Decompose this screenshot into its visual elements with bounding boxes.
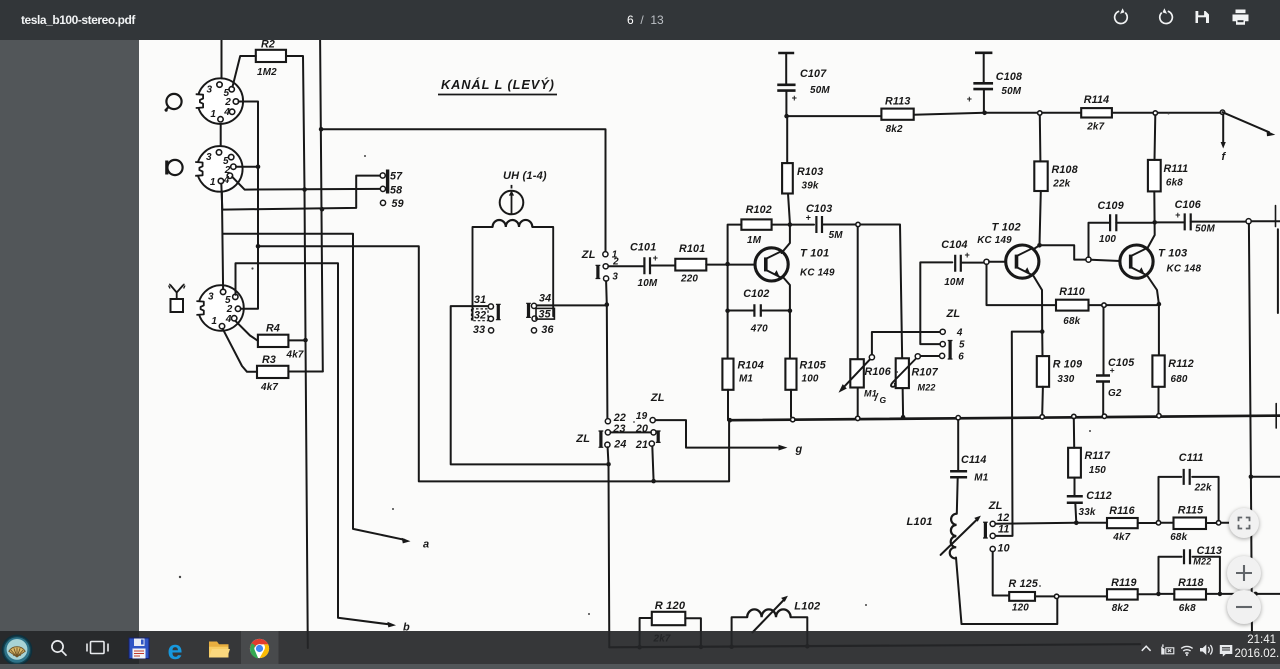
connector bar 31/32 xyxy=(497,304,500,319)
svg-text:R102: R102 xyxy=(746,204,772,216)
svg-text:R 125: R 125 xyxy=(1009,578,1039,590)
wire R104 bottom to ground bus xyxy=(727,390,729,420)
wire R102 left to base xyxy=(728,225,742,264)
svg-text:4k7: 4k7 xyxy=(260,382,278,393)
transformer UH winding + box xyxy=(473,227,493,320)
capacitor C102 xyxy=(743,288,769,335)
terminal 57 xyxy=(380,171,403,183)
svg-text:R105: R105 xyxy=(800,360,827,372)
wire R103 top to C107 node xyxy=(786,116,788,163)
svg-text:KANÁL L (LEVÝ): KANÁL L (LEVÝ) xyxy=(441,77,555,92)
wire C105 top xyxy=(1103,308,1105,376)
svg-text:59: 59 xyxy=(392,198,404,210)
svg-text:50M: 50M xyxy=(1001,86,1021,97)
resistor R114 xyxy=(1081,94,1112,133)
wire ZL5 to C104 xyxy=(920,262,952,344)
svg-text:33: 33 xyxy=(473,324,485,336)
connector ZL pins 4-6 xyxy=(940,308,966,363)
svg-text:C111: C111 xyxy=(1179,452,1204,464)
svg-text:M22: M22 xyxy=(918,383,936,393)
wire C109 right to R111 node xyxy=(1116,222,1152,224)
wire C109 left to base node xyxy=(1089,223,1111,257)
floppy app xyxy=(129,638,149,659)
resistor R2 xyxy=(256,39,286,79)
svg-text:4k7: 4k7 xyxy=(286,350,304,361)
svg-text:1M2: 1M2 xyxy=(257,67,277,78)
svg-text:+: + xyxy=(1110,365,1115,375)
capacitor C112 xyxy=(1067,490,1112,518)
resistor R118 xyxy=(1174,577,1206,614)
svg-text:C113: C113 xyxy=(1197,545,1223,557)
svg-text:M1: M1 xyxy=(739,374,753,385)
resistor R113 xyxy=(881,96,913,136)
svg-text:31: 31 xyxy=(474,294,486,306)
chrome xyxy=(249,639,269,659)
svg-text:R115: R115 xyxy=(1178,505,1204,517)
resistor R105 xyxy=(785,359,826,390)
node f junction + arrows xyxy=(1153,111,1157,115)
svg-text:C114: C114 xyxy=(961,454,987,466)
resistor R110 xyxy=(1056,286,1089,327)
svg-text:5: 5 xyxy=(959,340,965,351)
svg-text:g: g xyxy=(795,444,803,456)
wire T102-T103 coupling xyxy=(1040,245,1086,259)
svg-text:ZL: ZL xyxy=(581,249,596,261)
wire T101 collector xyxy=(782,225,790,253)
antenna icon xyxy=(169,284,185,312)
connector J2 (DIN input 2) xyxy=(195,146,243,192)
wire conn3 pin5 to arrow b xyxy=(236,263,390,624)
svg-text:10M: 10M xyxy=(638,278,658,289)
resistor R112 xyxy=(1152,355,1193,386)
title KANAL L (LEVY) xyxy=(438,77,557,95)
wire conn2 pin4 to terminal 58 xyxy=(232,177,380,190)
svg-text:6k8: 6k8 xyxy=(1179,603,1196,614)
svg-text:12: 12 xyxy=(997,512,1009,524)
wire L101 bottom to R125 node xyxy=(956,558,1057,625)
svg-text:4: 4 xyxy=(225,314,232,325)
svg-text:100: 100 xyxy=(802,374,819,385)
svg-text:50M: 50M xyxy=(1195,224,1215,235)
terminal 34 xyxy=(531,293,551,309)
svg-text:68k: 68k xyxy=(1170,532,1187,543)
wire C105 bottom to bus xyxy=(1102,382,1104,417)
wire R117 top to bus xyxy=(1073,419,1075,448)
svg-text:G: G xyxy=(880,395,887,405)
svg-text:R103: R103 xyxy=(797,166,823,178)
wire R107 wiper to ZL6 xyxy=(920,355,939,357)
svg-text:ZL: ZL xyxy=(946,308,961,320)
svg-text:R101: R101 xyxy=(679,243,705,255)
tray chevron xyxy=(1142,646,1151,651)
wire R103 bottom to collector node xyxy=(788,194,790,224)
svg-text:C112: C112 xyxy=(1086,490,1112,502)
resistor R4 xyxy=(258,323,304,361)
svg-text:R104: R104 xyxy=(738,360,764,372)
wire pin2 bus (conn1-conn2-conn3) xyxy=(239,102,258,309)
capacitor C107 (electrolytic) xyxy=(777,53,830,116)
resistor R102 xyxy=(741,204,772,246)
svg-text:+: + xyxy=(653,253,659,263)
resistor R115 xyxy=(1170,505,1206,544)
wire R111 bottom to collector node xyxy=(1147,191,1155,249)
capacitor C103 xyxy=(806,203,844,241)
wire conn3 pin4 to R4 xyxy=(235,321,258,341)
svg-text:22k: 22k xyxy=(1194,483,1212,494)
wire R109 bottom to bus xyxy=(1041,387,1044,415)
wire R116-R115 xyxy=(1138,522,1156,524)
motor symbol UH xyxy=(500,185,524,214)
wire C104 to T102 base xyxy=(961,262,984,264)
svg-text:19: 19 xyxy=(636,411,648,422)
resistor R103 xyxy=(782,163,823,193)
capacitor C101 xyxy=(630,242,659,290)
wire R3 right to x322 vertical xyxy=(288,371,322,373)
wifi xyxy=(1181,646,1192,656)
wire pin2-bus to ZL21 net (via x419) xyxy=(258,246,729,481)
wire T102 collector xyxy=(1033,245,1040,249)
resistor R117 xyxy=(1068,448,1111,478)
svg-text:R111: R111 xyxy=(1164,163,1189,175)
speaker xyxy=(1200,645,1212,655)
resistor R109 xyxy=(1037,356,1082,387)
svg-text:33k: 33k xyxy=(1079,507,1096,518)
svg-text:KC 149: KC 149 xyxy=(800,268,835,279)
svg-text:R112: R112 xyxy=(1168,358,1194,370)
partial component at right edge xyxy=(1277,229,1279,313)
svg-text:58: 58 xyxy=(390,185,402,197)
wire R2 left to conn1 pin5 xyxy=(233,56,256,87)
svg-text:+: + xyxy=(792,93,798,103)
capacitor C114 xyxy=(950,454,988,484)
wire T103 emitter xyxy=(1148,276,1159,355)
svg-text:6: 6 xyxy=(958,352,964,363)
svg-text:R2: R2 xyxy=(261,39,275,51)
wire T102 base to R110 xyxy=(987,264,1057,305)
wire C102 right xyxy=(761,310,790,312)
svg-text:3: 3 xyxy=(208,291,214,302)
svg-text:68k: 68k xyxy=(1063,316,1080,327)
svg-text:680: 680 xyxy=(1171,374,1188,385)
wire T101 emitter down xyxy=(783,277,790,359)
wire ZL23-ZL20 xyxy=(611,431,651,433)
capacitor C109 xyxy=(1098,200,1124,245)
svg-text:C101: C101 xyxy=(630,242,656,254)
svg-text:32: 32 xyxy=(474,309,486,321)
svg-text:100: 100 xyxy=(1099,234,1116,245)
wire T102 emitter node to ZL11 riser xyxy=(995,332,1042,536)
wire ZL12 to R116 xyxy=(995,522,1107,525)
wire vertical x322 (page top to R3) xyxy=(320,40,323,371)
svg-text:T 101: T 101 xyxy=(800,248,829,260)
transistor T101 xyxy=(755,248,835,282)
terminal 31 xyxy=(474,294,494,309)
inductor L102 (variable) xyxy=(732,596,821,647)
folder xyxy=(209,642,230,658)
svg-text:22k: 22k xyxy=(1052,179,1070,190)
svg-text:34: 34 xyxy=(539,293,551,305)
capacitor C111 (parallel loop) xyxy=(1159,452,1219,521)
svg-text:150: 150 xyxy=(1089,465,1106,476)
wire conn2 pin1 to terminal 57 xyxy=(221,176,380,210)
svg-text:11: 11 xyxy=(998,524,1010,536)
svg-text:4: 4 xyxy=(956,328,963,339)
wire branch y477 to edge xyxy=(1251,476,1280,478)
wire C106 right to edge xyxy=(1191,220,1280,222)
start button (Classic Shell) xyxy=(2,635,32,665)
svg-text:3: 3 xyxy=(207,84,213,95)
wire R2 right / long vertical to bottom xyxy=(286,56,308,648)
wire R109 top xyxy=(1041,332,1043,357)
svg-text:C102: C102 xyxy=(743,288,769,300)
svg-text:4k7: 4k7 xyxy=(1112,532,1130,543)
trimmer R107 xyxy=(891,354,939,393)
svg-text:5M: 5M xyxy=(829,230,844,241)
svg-text:R117: R117 xyxy=(1085,450,1111,462)
connector J1 (DIN input 1) xyxy=(195,78,243,124)
headphone icon xyxy=(165,94,182,112)
wire terminal34 to ZL3 vertical xyxy=(537,304,607,306)
connector ZL pins 22-24 xyxy=(575,412,626,450)
wire R101 to T101 base xyxy=(706,264,755,266)
svg-text:6k8: 6k8 xyxy=(1166,178,1183,189)
wire R108 bottom to T102 collector xyxy=(1040,191,1041,245)
svg-text:4: 4 xyxy=(223,175,230,186)
wire C101 to R101 xyxy=(650,265,675,267)
svg-text:R106: R106 xyxy=(865,366,891,378)
svg-text:KC 148: KC 148 xyxy=(1167,264,1202,275)
svg-text:10: 10 xyxy=(998,543,1010,555)
svg-text:ZL: ZL xyxy=(575,433,590,445)
ground bus xyxy=(730,416,1280,421)
wire conn3 pin1 to R3 xyxy=(223,329,257,372)
connector ZL pins 10-12 xyxy=(983,500,1010,555)
capacitor C106 xyxy=(1175,199,1216,235)
wire R110 to T103 emitter xyxy=(1089,304,1157,306)
wire ZL10 to R125 xyxy=(993,552,1010,596)
connector bar 34/35 xyxy=(527,303,530,317)
wire long right vertical xyxy=(1249,224,1252,638)
svg-text:G2: G2 xyxy=(1108,388,1122,399)
svg-text:L102: L102 xyxy=(794,601,821,613)
wire conn2-conn3 shield link xyxy=(222,192,223,289)
wire ZL19 to arrow g xyxy=(655,420,779,448)
svg-text:R119: R119 xyxy=(1111,577,1137,589)
wire conn1-conn2 shield link xyxy=(220,124,222,146)
task view xyxy=(87,642,108,654)
wire R108 top to rail xyxy=(1039,115,1042,161)
microphone icon xyxy=(167,160,183,175)
svg-text:R 120: R 120 xyxy=(655,600,686,612)
resistor R3 xyxy=(257,354,288,393)
svg-text:KC 149: KC 149 xyxy=(977,235,1012,246)
svg-text:1: 1 xyxy=(211,316,217,327)
svg-text:R4: R4 xyxy=(266,323,280,335)
svg-text:C108: C108 xyxy=(996,71,1022,83)
wire R4 to vertical xyxy=(288,339,305,341)
wire C114 bottom to L101 xyxy=(956,477,959,513)
svg-text:470: 470 xyxy=(750,324,768,335)
trimmer R106 xyxy=(839,227,891,416)
terminal 36 xyxy=(531,324,553,336)
terminal 32 xyxy=(472,309,494,322)
ground rail bottom xyxy=(609,644,1140,647)
svg-text:3: 3 xyxy=(612,271,618,282)
svg-text:39k: 39k xyxy=(802,181,819,192)
wire R115 out xyxy=(1221,522,1251,524)
svg-text:24: 24 xyxy=(613,438,626,450)
svg-text:220: 220 xyxy=(680,274,698,285)
wire C106 left xyxy=(1155,221,1185,223)
svg-text:1M: 1M xyxy=(747,235,762,246)
wire R102 right / collector node xyxy=(772,224,814,226)
svg-text:ZL: ZL xyxy=(650,392,665,404)
wire ZL2 to C101 xyxy=(608,265,644,267)
svg-text:36: 36 xyxy=(541,324,553,336)
svg-text:C107: C107 xyxy=(800,68,827,80)
terminal 58 xyxy=(380,185,402,197)
capacitor C108 (electrolytic) xyxy=(967,53,1023,113)
resistor R120 xyxy=(640,600,701,647)
transistor T103 xyxy=(1120,245,1202,278)
wire conn2 pin2 tap xyxy=(236,166,258,168)
svg-text:M1: M1 xyxy=(974,473,988,484)
svg-text:R107: R107 xyxy=(912,367,939,379)
svg-text:UH (1-4): UH (1-4) xyxy=(503,170,547,182)
capacitor C113 (parallel loop) xyxy=(1159,545,1223,591)
svg-text:R114: R114 xyxy=(1084,94,1110,106)
svg-text:L101: L101 xyxy=(907,516,933,528)
terminal 59 xyxy=(380,198,403,210)
wire C114 top to bus xyxy=(957,420,959,471)
connector bar 57/58 xyxy=(386,170,389,194)
wire R105 bottom to ground bus xyxy=(790,390,792,417)
svg-text:120: 120 xyxy=(1012,603,1029,614)
wire R117-C112 xyxy=(1074,478,1076,497)
wire ZL3 down to junction / ZL22 xyxy=(606,281,607,419)
svg-text:2k7: 2k7 xyxy=(1086,122,1104,133)
connector ZL pins 1-3 xyxy=(581,249,619,282)
wire supply rail y116 xyxy=(787,113,1221,116)
terminal 35 xyxy=(532,308,554,321)
resistor R125 xyxy=(1009,578,1039,614)
svg-text:+: + xyxy=(964,250,970,260)
wire terminal31 left leg down to ZL24 net xyxy=(451,306,606,464)
svg-text:a: a xyxy=(423,539,429,551)
svg-text:R3: R3 xyxy=(262,354,276,366)
svg-text:ZL: ZL xyxy=(988,500,1003,512)
resistor R111 xyxy=(1148,160,1188,192)
svg-text:10M: 10M xyxy=(944,277,964,288)
svg-text:e: e xyxy=(168,635,183,664)
resistor R116 xyxy=(1107,505,1138,543)
wire ZL21 down to y481 xyxy=(652,446,653,481)
svg-text:R108: R108 xyxy=(1052,164,1078,176)
wire T102 emitter xyxy=(1034,276,1043,332)
capacitor C104 xyxy=(941,239,970,288)
svg-text:330: 330 xyxy=(1057,374,1074,385)
svg-text:57: 57 xyxy=(390,171,403,183)
svg-text:+: + xyxy=(1175,210,1181,220)
svg-text:8k2: 8k2 xyxy=(1112,603,1129,614)
svg-text:21: 21 xyxy=(635,439,648,451)
resistor R119 xyxy=(1107,577,1138,614)
search xyxy=(52,641,67,656)
svg-text:R110: R110 xyxy=(1059,286,1085,298)
svg-text:50M: 50M xyxy=(810,85,830,96)
svg-text:R116: R116 xyxy=(1109,505,1135,517)
svg-text:+: + xyxy=(806,213,812,223)
svg-text:M22: M22 xyxy=(1193,557,1211,567)
svg-text:C109: C109 xyxy=(1098,200,1124,212)
resistor R108 xyxy=(1034,161,1078,191)
wire R106 wiper to ZL4 xyxy=(872,332,940,355)
wire C102 left xyxy=(728,264,755,359)
connector ZL pins 19-21 xyxy=(635,392,665,451)
svg-text:+: + xyxy=(967,94,973,104)
active app highlight (Chrome) xyxy=(241,631,279,664)
wire node A horizontal y129 to ZL pin1 xyxy=(321,129,605,251)
capacitor C105 xyxy=(1096,357,1135,399)
wire ZL24 down to bottom xyxy=(608,447,610,647)
svg-text:T 103: T 103 xyxy=(1158,248,1188,260)
terminal 33 xyxy=(473,324,494,336)
wire conn1 top stub xyxy=(221,40,223,78)
notifications xyxy=(1220,645,1233,657)
wire conn2 shield to arrow a xyxy=(223,234,405,540)
svg-text:1: 1 xyxy=(210,177,216,188)
wire C103 to R107 branch xyxy=(823,225,904,417)
svg-text:4: 4 xyxy=(223,107,230,118)
svg-text:T 102: T 102 xyxy=(992,222,1022,234)
scan specks xyxy=(179,113,1170,616)
svg-text:3: 3 xyxy=(206,152,212,163)
svg-text:1: 1 xyxy=(210,109,216,120)
connector J3 (DIN input 3) xyxy=(196,285,244,331)
resistor R104 xyxy=(722,359,763,390)
wire R111 top to rail xyxy=(1154,115,1157,160)
wire C112 bottom xyxy=(1075,503,1076,523)
input indicator xyxy=(1162,644,1174,654)
wire R112 bottom to bus xyxy=(1158,387,1160,414)
svg-text:R118: R118 xyxy=(1178,577,1204,589)
resistor R101 xyxy=(675,243,706,285)
svg-text:R 109: R 109 xyxy=(1053,359,1083,371)
svg-text:R113: R113 xyxy=(885,96,911,108)
transistor T102 xyxy=(977,222,1039,279)
svg-text:8k2: 8k2 xyxy=(886,124,903,135)
inductor L101 (variable) xyxy=(907,514,981,559)
